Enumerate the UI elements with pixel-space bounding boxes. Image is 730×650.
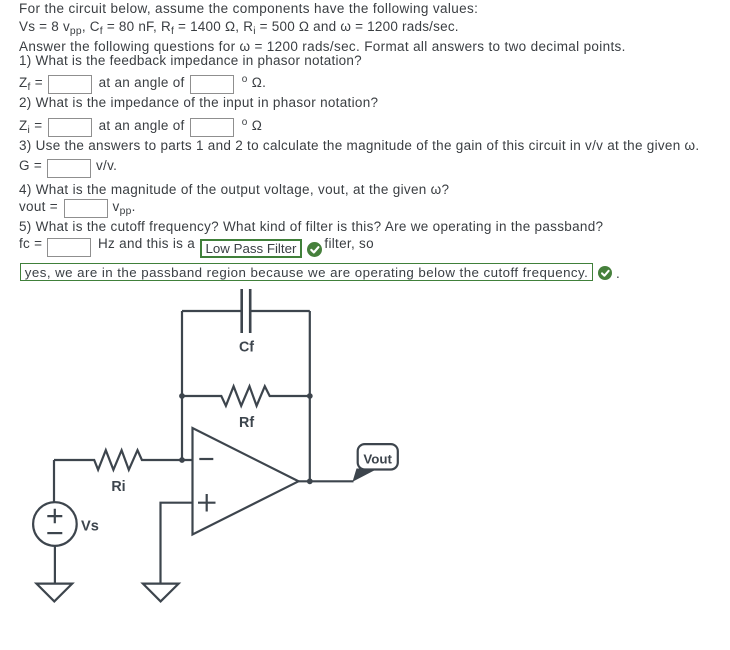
svg-text:Cf: Cf bbox=[239, 340, 254, 356]
svg-text:Vout: Vout bbox=[363, 451, 392, 466]
green check 1 bbox=[307, 242, 322, 257]
input box G bbox=[47, 159, 91, 178]
wire: top capacitor branch right segment bbox=[251, 310, 309, 312]
Vout bubble tail bbox=[353, 469, 379, 482]
svg-text:Vs: Vs bbox=[81, 519, 99, 535]
op-amp plus sign bbox=[198, 494, 216, 512]
voltage source Vs bbox=[33, 502, 77, 546]
answer box row 14 bbox=[20, 263, 593, 281]
wire: non-inverting input to ground bbox=[161, 503, 193, 584]
op-amp U1 bbox=[193, 428, 299, 535]
ground (non-inverting input) bbox=[143, 584, 179, 602]
capacitor Cf bbox=[242, 289, 251, 333]
wire: left feedback vertical bbox=[181, 311, 183, 460]
svg-text:Rf: Rf bbox=[239, 415, 254, 431]
input box Zf magnitude bbox=[48, 75, 92, 94]
input box Zi magnitude bbox=[48, 118, 92, 137]
op-amp minus sign bbox=[199, 458, 213, 460]
svg-text:Ri: Ri bbox=[111, 479, 125, 495]
source minus sign bbox=[47, 532, 62, 534]
wire: source vertical to input bbox=[53, 460, 55, 502]
wire + resistor Rf feedback branch bbox=[182, 386, 310, 406]
node: junction dot output bbox=[307, 478, 313, 484]
question text block bbox=[19, 0, 478, 18]
node: junction dot left feedback bbox=[179, 393, 185, 399]
wire: output bbox=[299, 480, 354, 482]
input box fc bbox=[47, 238, 91, 257]
wire: top capacitor branch left segment bbox=[182, 310, 241, 312]
input box vout bbox=[64, 199, 108, 218]
source plus sign bbox=[47, 509, 62, 524]
input box Zf angle bbox=[190, 75, 234, 94]
dropdown Low Pass Filter bbox=[200, 239, 302, 258]
Vout label bubble bbox=[358, 444, 398, 469]
input box Zi angle bbox=[190, 118, 234, 137]
wire: source to ground bbox=[54, 546, 56, 584]
wire + resistor Ri input branch bbox=[54, 450, 193, 470]
wire: right feedback vertical bbox=[309, 311, 311, 481]
ground (source) bbox=[37, 584, 73, 602]
node: junction dot right feedback bbox=[307, 393, 313, 399]
node: junction dot inverting input bbox=[179, 457, 185, 463]
green check 2 bbox=[598, 266, 612, 280]
